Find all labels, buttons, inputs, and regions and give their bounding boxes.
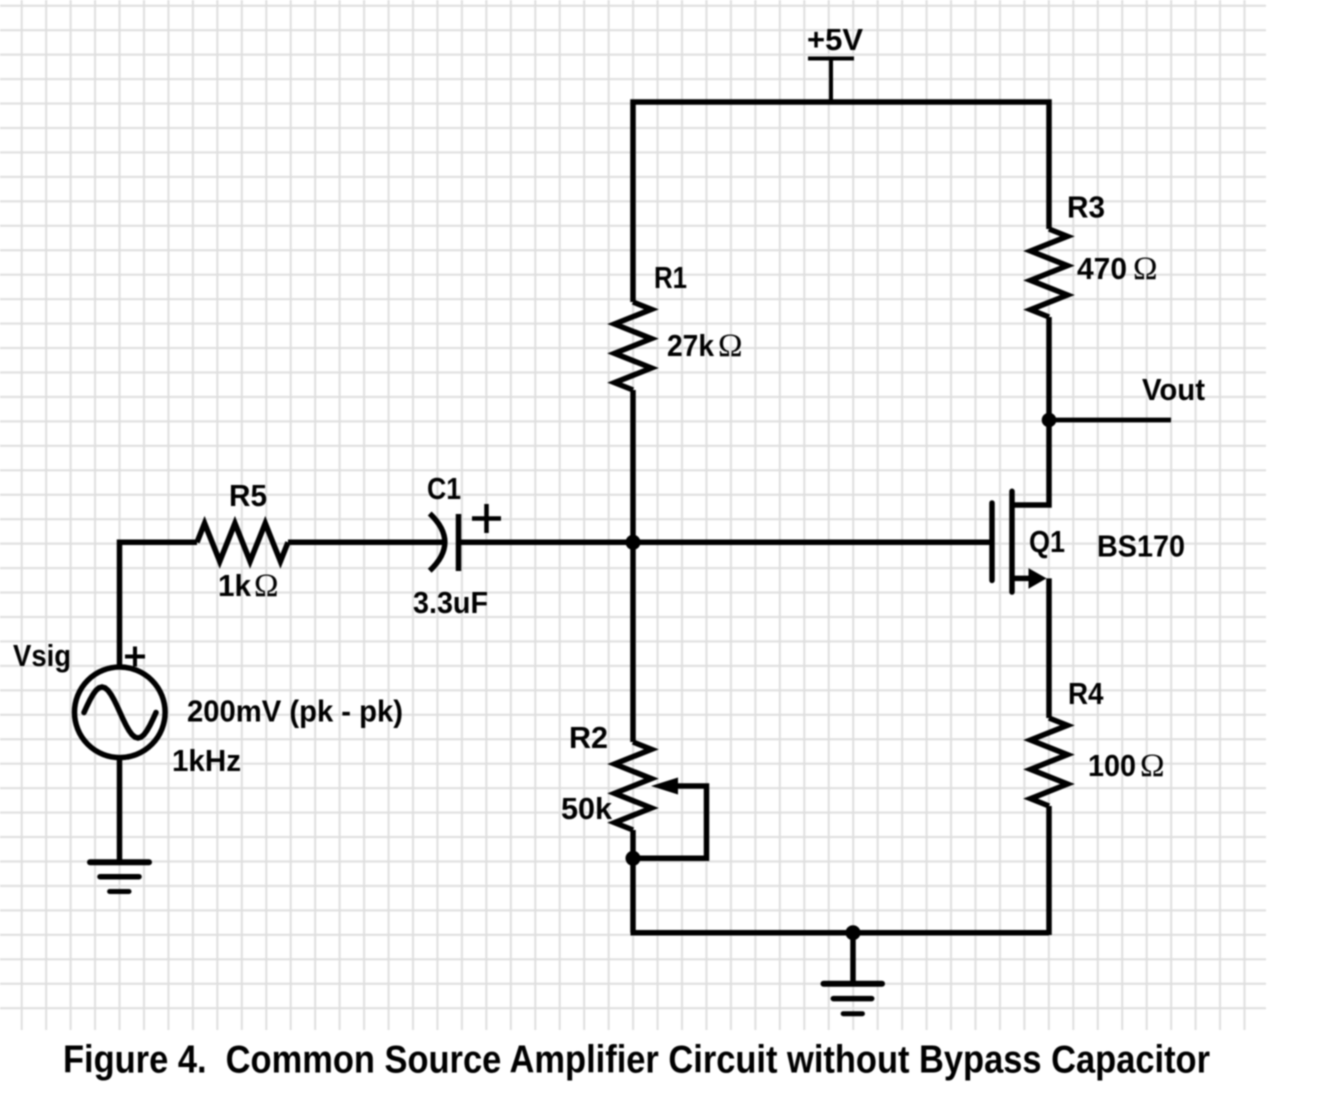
- node A junction dot: [626, 535, 641, 550]
- wire Vout lead: [1049, 418, 1171, 423]
- svg-text:R1: R1: [654, 260, 687, 295]
- svg-text:Ω: Ω: [1133, 251, 1158, 287]
- resistor R3: [1031, 229, 1068, 317]
- Vsig sine wave: [84, 687, 156, 738]
- source Vsig circle: [75, 667, 166, 758]
- svg-text:Vout: Vout: [1142, 372, 1205, 407]
- wire R4 bottom to rail: [1046, 806, 1052, 935]
- wire R2 bottom: [630, 830, 636, 933]
- svg-text:C1: C1: [427, 471, 461, 506]
- node G junction dot: [846, 925, 861, 940]
- svg-text:Q1: Q1: [1029, 524, 1065, 559]
- svg-text:470: 470: [1077, 251, 1127, 286]
- svg-text:Ω: Ω: [1140, 748, 1165, 784]
- transistor Q1 source lead: [1010, 576, 1032, 582]
- svg-text:Vsig: Vsig: [13, 638, 71, 673]
- svg-text:50k: 50k: [561, 791, 613, 826]
- resistor R5: [197, 523, 288, 561]
- wire node A down to R2: [630, 542, 636, 742]
- wire top rail: [633, 102, 1049, 302]
- C1 polarity plus: [472, 504, 501, 533]
- wire left segment to R5: [120, 542, 198, 667]
- svg-text:1k: 1k: [218, 568, 252, 603]
- svg-text:100: 100: [1088, 748, 1136, 783]
- resistor R1: [615, 302, 652, 390]
- svg-text:27k: 27k: [667, 328, 715, 363]
- ground symbol right: [824, 984, 883, 1014]
- svg-text:3.3uF: 3.3uF: [413, 585, 488, 620]
- svg-text:Figure 4. Common Source Ampli: Figure 4. Common Source Amplifier Circui…: [63, 1039, 1210, 1082]
- svg-text:BS170: BS170: [1097, 529, 1185, 564]
- svg-text:Ω: Ω: [254, 568, 279, 604]
- node Vout junction dot: [1042, 413, 1057, 428]
- wire R5 to C1: [288, 540, 443, 546]
- ground stub wire: [850, 933, 856, 984]
- transistor Q1 source arrow: [1029, 568, 1047, 589]
- node B junction dot: [626, 851, 641, 866]
- wire bottom rail: [631, 930, 1050, 936]
- svg-text:R5: R5: [229, 478, 267, 513]
- svg-text:Ω: Ω: [718, 328, 743, 364]
- svg-text:R2: R2: [569, 720, 608, 755]
- Vsig polarity plus: [125, 647, 145, 667]
- svg-text:R3: R3: [1067, 190, 1105, 225]
- svg-text:+5V: +5V: [807, 22, 863, 57]
- transistor Q1 gate bar: [989, 503, 995, 580]
- svg-text:200mV (pk - pk): 200mV (pk - pk): [187, 694, 403, 729]
- svg-text:R4: R4: [1068, 676, 1104, 711]
- capacitor C1: [430, 514, 459, 572]
- resistor R4: [1031, 718, 1068, 806]
- wire source to R4: [1046, 578, 1052, 718]
- wire Vsig to ground: [117, 758, 123, 862]
- ground symbol left: [90, 862, 149, 891]
- resistor R2 potentiometer: [615, 742, 652, 830]
- R2 wiper wire: [640, 786, 707, 858]
- wire R3 bottom to drain: [1010, 317, 1049, 505]
- transistor Q1 channel bar: [1009, 491, 1015, 592]
- wire R1 bottom to node A: [630, 390, 636, 542]
- R2 wiper arrow: [651, 778, 678, 795]
- +5V supply symbol: [808, 59, 854, 102]
- wire C1 to gate: [461, 540, 990, 546]
- svg-text:1kHz: 1kHz: [172, 743, 241, 778]
